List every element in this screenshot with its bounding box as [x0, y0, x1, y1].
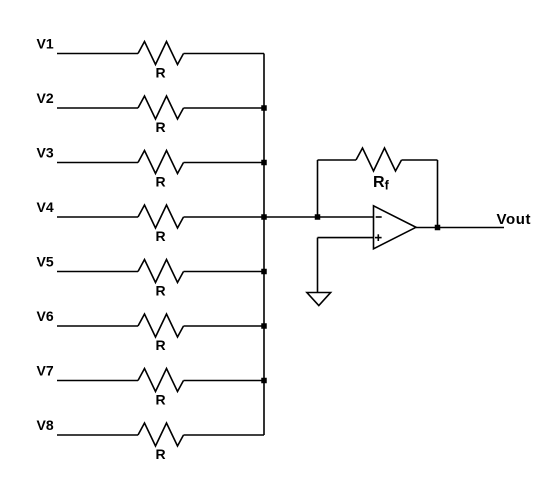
- resistor Rf (feedback): [356, 148, 402, 171]
- wire feedback top right: [402, 159, 438, 161]
- resistor R (input V1): [138, 42, 184, 65]
- wire summing bus vertical: [263, 54, 265, 436]
- junction V6 on summing bus: [261, 323, 267, 329]
- resistor R (input V6): [138, 314, 184, 337]
- junction inverting input node (feedback tap): [315, 214, 321, 220]
- svg-text:V5: V5: [37, 254, 54, 270]
- op-amp non-inverting pin plus sign: [375, 234, 382, 241]
- svg-text:R: R: [155, 65, 165, 81]
- wire non-inverting input horizontal: [318, 237, 374, 239]
- wire V6 input lead: [57, 325, 138, 327]
- junction output node (feedback connection): [435, 225, 441, 231]
- svg-text:R: R: [155, 283, 165, 299]
- op-amp inverting pin minus sign: [376, 216, 382, 218]
- junction V4 summing node on bus: [261, 214, 267, 220]
- svg-text:V2: V2: [37, 90, 54, 106]
- junction V2 on summing bus: [261, 105, 267, 111]
- wire V2 input lead: [57, 107, 138, 109]
- resistor R (input V3): [138, 151, 184, 174]
- wire V4 resistor to op-amp inverting input: [184, 216, 374, 218]
- op-amp U1 triangle: [374, 206, 417, 249]
- svg-text:V3: V3: [37, 145, 54, 161]
- wire V5 resistor to summing bus: [184, 271, 265, 273]
- svg-text:R: R: [155, 174, 165, 190]
- resistor R (input V7): [138, 369, 184, 392]
- wire V6 resistor to summing bus: [184, 325, 265, 327]
- wire V4 input lead: [57, 216, 138, 218]
- wire V7 input lead: [57, 380, 138, 382]
- wire feedback left vertical: [317, 160, 319, 217]
- wire V2 resistor to summing bus: [184, 107, 265, 109]
- wire V5 input lead: [57, 271, 138, 273]
- junction V3 on summing bus: [261, 160, 267, 166]
- wire feedback right vertical: [437, 160, 439, 228]
- svg-text:R: R: [155, 446, 165, 462]
- svg-text:R: R: [155, 337, 165, 353]
- wire V8 input lead: [57, 434, 138, 436]
- svg-text:V4: V4: [37, 199, 54, 215]
- wire V1 resistor to summing bus: [184, 53, 265, 55]
- resistor R (input V8): [138, 423, 184, 446]
- svg-text:R: R: [155, 392, 165, 408]
- svg-text:V6: V6: [37, 308, 54, 324]
- wire V3 resistor to summing bus: [184, 162, 265, 164]
- junction V7 on summing bus: [261, 378, 267, 384]
- svg-text:R: R: [155, 228, 165, 244]
- wire feedback top left: [318, 159, 357, 161]
- resistor R (input V4): [138, 205, 184, 228]
- svg-text:V1: V1: [37, 36, 54, 52]
- junction V5 on summing bus: [261, 269, 267, 275]
- wire V7 resistor to summing bus: [184, 380, 265, 382]
- wire V3 input lead: [57, 162, 138, 164]
- resistor R (input V5): [138, 260, 184, 283]
- wire V1 input lead: [57, 53, 138, 55]
- wire V8 resistor to summing bus: [184, 434, 265, 436]
- ground symbol: [307, 293, 331, 306]
- svg-text:V7: V7: [37, 363, 54, 379]
- svg-text:V8: V8: [37, 417, 54, 433]
- svg-text:Vout: Vout: [497, 211, 532, 228]
- svg-text:R: R: [155, 119, 165, 135]
- resistor R (input V2): [138, 96, 184, 119]
- wire op-amp output: [416, 227, 504, 229]
- wire non-inverting input vertical to ground: [317, 238, 319, 293]
